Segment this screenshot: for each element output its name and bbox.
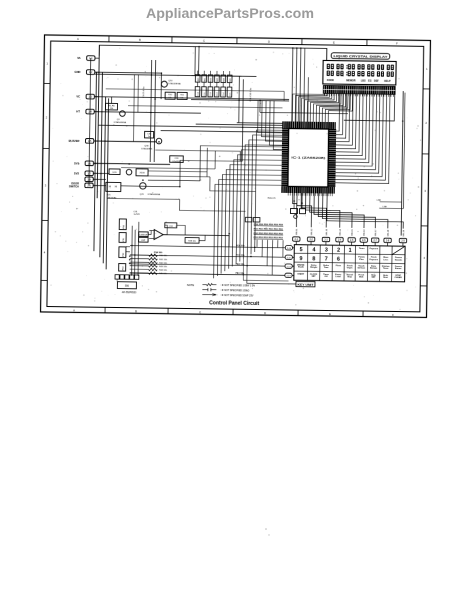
svg-text:X200: X200 — [139, 172, 145, 174]
svg-text:DEF: DEF — [374, 80, 379, 83]
svg-text:: IF NOT SPECIFIED 50WF 25V: : IF NOT SPECIFIED 50WF 25V — [220, 295, 254, 297]
resistor R1-R5 block — [105, 103, 117, 110]
svg-text:C34: C34 — [169, 226, 174, 228]
svg-text:A: A — [73, 308, 75, 312]
svg-text:D: D — [268, 40, 270, 44]
wire bundle top verticals into IC left pins — [257, 48, 308, 151]
svg-text:F: F — [392, 313, 394, 317]
svg-text:F: F — [396, 42, 398, 46]
wire key row lines to oval connectors — [130, 244, 286, 276]
svg-text:3: 3 — [424, 189, 426, 193]
svg-text:C14: C14 — [223, 92, 225, 97]
svg-text:START: START — [297, 272, 305, 275]
wire bundle IC left pins staircase to bottom — [214, 129, 299, 284]
svg-text:PLUS: PLUS — [298, 267, 304, 269]
wire HT line — [94, 97, 289, 115]
svg-text:Less: Less — [383, 259, 389, 261]
svg-text:LM358: LM358 — [139, 234, 148, 236]
svg-text:2: 2 — [337, 248, 340, 254]
wire extra horizontal runs center — [93, 72, 285, 212]
svg-text:Popcorn: Popcorn — [370, 247, 379, 250]
svg-text:A: A — [77, 37, 79, 41]
svg-text:R24: R24 — [223, 77, 225, 82]
stray scan dots — [265, 528, 267, 530]
svg-text:SW-19: SW-19 — [403, 229, 405, 236]
svg-text:9: 9 — [299, 256, 302, 262]
svg-text:C13: C13 — [217, 92, 219, 97]
connector 1-6 SV1 — [74, 161, 93, 166]
svg-text:PA0 10h: PA0 10h — [236, 263, 245, 266]
connector 2-2 key line — [307, 237, 315, 245]
key matrix keyboard grid — [294, 245, 405, 282]
wire bundle IC top to left circuitry — [196, 47, 349, 127]
svg-text:Popcorn: Popcorn — [369, 258, 378, 261]
svg-text:1u: 1u — [148, 136, 150, 138]
wire top horizontal buses — [94, 74, 283, 132]
svg-text:SW-14: SW-14 — [340, 228, 342, 235]
op-amp U30 LM358 — [139, 222, 230, 243]
connector 2-12 key row oval — [285, 264, 294, 269]
transistor Q21 — [140, 183, 161, 196]
svg-text:Timer: Timer — [383, 267, 389, 270]
LCD title box LIQUID CRYSTAL DISPLAY — [331, 53, 390, 59]
capacitor C30 transistor Q30 buzzer cluster — [94, 131, 162, 151]
svg-text:SW-11: SW-11 — [296, 228, 298, 235]
svg-text:R42 10k: R42 10k — [159, 263, 168, 265]
svg-text:Plus: Plus — [359, 259, 364, 261]
resistor ladder RA zigzags — [130, 254, 169, 276]
svg-text:EG: EG — [368, 80, 372, 83]
svg-text:C10: C10 — [198, 91, 200, 96]
title Control Panel Circuit — [209, 300, 259, 307]
svg-text:C: C — [203, 39, 205, 43]
svg-text:SET: SET — [371, 277, 376, 279]
svg-text:DTA143ESA: DTA143ESA — [168, 82, 181, 85]
svg-text:R20: R20 — [198, 77, 200, 82]
svg-text:R21: R21 — [204, 77, 206, 82]
svg-text:Control Panel Circuit: Control Panel Circuit — [209, 300, 259, 307]
svg-text:R25: R25 — [230, 77, 232, 82]
svg-text:LM(340A): LM(340A) — [107, 196, 117, 199]
svg-text:PS2: PS2 — [123, 252, 125, 257]
svg-text:AppliancePartsPros.com: AppliancePartsPros.com — [146, 6, 314, 22]
svg-text:DTA144ESA: DTA144ESA — [114, 121, 127, 124]
resistor array R20 capacitor C10 cluster — [191, 71, 289, 101]
svg-text:LNE: LNE — [377, 200, 382, 202]
svg-text:Stop: Stop — [347, 276, 352, 279]
svg-text:6: 6 — [337, 256, 340, 262]
svg-text:-: - — [155, 232, 156, 235]
svg-text:KEY UNIT: KEY UNIT — [297, 283, 313, 287]
connector 2-7 key line — [371, 238, 379, 246]
svg-text:SV2: SV2 — [74, 171, 80, 175]
svg-text:H: H — [115, 185, 117, 189]
wire bundle lower-left verticals — [126, 222, 139, 276]
capacitor C40 cluster — [245, 217, 260, 222]
svg-text:10k: 10k — [180, 97, 183, 99]
svg-text:R23: R23 — [217, 77, 219, 82]
IC bottom pin stubs — [288, 193, 332, 196]
svg-text:4: 4 — [312, 247, 315, 253]
svg-text:PC0 13h: PC0 13h — [236, 245, 245, 247]
IC U20 transistor Q20 SV1 cluster — [93, 163, 170, 176]
svg-text:1: 1 — [426, 67, 428, 71]
svg-text:SW-17: SW-17 — [375, 229, 377, 236]
svg-text:R40-1/5: R40-1/5 — [268, 197, 277, 199]
svg-text:10k: 10k — [168, 97, 171, 99]
svg-text:LBS: LBS — [361, 80, 366, 83]
LCD ribbon stubs — [324, 93, 393, 96]
svg-text:Q21: Q21 — [140, 194, 145, 196]
svg-text:U20: U20 — [113, 172, 118, 174]
svg-text:Q30: Q30 — [144, 145, 149, 147]
svg-text:3: 3 — [45, 183, 47, 187]
svg-text:Level: Level — [335, 276, 341, 278]
svg-text:E: E — [329, 312, 331, 316]
IC U21 driver — [93, 179, 121, 199]
svg-text:SW-12: SW-12 — [311, 228, 313, 235]
capacitor C1-C5 label — [143, 86, 145, 98]
label KEY UNIT — [296, 281, 315, 286]
LCD pin header strip — [323, 85, 395, 94]
svg-text:C12: C12 — [210, 91, 212, 96]
note legend — [187, 283, 255, 298]
connector 1-8 conn — [85, 177, 93, 182]
label C31 — [133, 211, 140, 216]
svg-text:2: 2 — [425, 121, 427, 125]
svg-text:HT: HT — [76, 110, 80, 114]
svg-text:Off: Off — [324, 276, 327, 278]
resistor R10 R11 — [165, 92, 187, 99]
svg-text:2: 2 — [46, 115, 48, 119]
svg-text:HELP: HELP — [384, 80, 391, 83]
svg-text:LMP: LMP — [141, 240, 146, 242]
resistor network values block — [254, 224, 284, 240]
svg-text:R40 10k: R40 10k — [159, 255, 168, 257]
wire bundle IC bottom pins to key unit connectors — [292, 193, 403, 229]
svg-text:4: 4 — [44, 250, 46, 254]
connector 2-6 key line — [360, 238, 368, 246]
svg-text:IC-1 (ZA66208): IC-1 (ZA66208) — [291, 155, 325, 159]
svg-text:PS3: PS3 — [122, 266, 124, 271]
connector J3 bottom row — [115, 275, 139, 282]
svg-text:SW-15: SW-15 — [352, 228, 354, 235]
wire bundle LCD ribbon to IC top pins — [292, 93, 352, 122]
schematic sheet rotated group — [41, 35, 431, 317]
scan speckle noise — [50, 45, 422, 311]
svg-text:E: E — [333, 41, 335, 45]
wire left connector stubs — [93, 58, 99, 185]
svg-text:Start: Start — [383, 276, 388, 279]
sheet border outer frame — [41, 35, 431, 317]
connector column CN3 boxes — [119, 219, 127, 271]
svg-text:SW-16: SW-16 — [364, 229, 366, 236]
svg-text:PS0: PS0 — [123, 224, 125, 229]
wire VA to LCD top bus — [99, 45, 327, 60]
svg-text:: IF NOT SPECIFIED 1/16W J 5%: : IF NOT SPECIFIED 1/16W J 5% — [220, 285, 255, 287]
wire bundle LCD ribbon to IC right pins nested — [335, 94, 390, 184]
svg-text:1u/50V: 1u/50V — [133, 214, 140, 216]
svg-text:Entree: Entree — [395, 267, 402, 270]
connector 1-7 SV2 — [74, 171, 93, 176]
svg-text:Pizza: Pizza — [336, 265, 342, 267]
svg-text:PS0 500: PS0 500 — [154, 252, 163, 254]
svg-text:D: D — [264, 311, 266, 315]
svg-text:VA: VA — [77, 56, 81, 60]
svg-text:PC1 13h: PC1 13h — [236, 255, 245, 257]
IC U1 IC-1 IZA66208 microcontroller QFP — [281, 121, 336, 193]
svg-text:SW-13: SW-13 — [326, 228, 328, 235]
svg-text:Reheat: Reheat — [370, 267, 377, 270]
svg-text:556: 556 — [125, 285, 130, 288]
svg-text:8: 8 — [312, 256, 315, 262]
connector 1-2 GND — [74, 70, 94, 75]
wire buzzer vertical pair — [148, 147, 207, 177]
svg-text:DTA144ESA: DTA144ESA — [148, 193, 161, 196]
svg-text:Timer: Timer — [359, 247, 365, 250]
connector 2-9 key line — [399, 238, 407, 246]
svg-text:Weight: Weight — [310, 266, 317, 269]
wire door switch lines — [121, 145, 282, 189]
border zone tick marks — [41, 35, 431, 317]
capacitor C11-C15 label — [250, 87, 252, 101]
svg-text:B: B — [135, 309, 137, 313]
svg-text:PA1 10h: PA1 10h — [236, 272, 245, 275]
svg-text:SWITCH: SWITCH — [69, 185, 79, 188]
connector 2-4 key line — [336, 237, 344, 245]
connector 2-1 key line — [293, 237, 301, 245]
svg-text:VC: VC — [76, 95, 80, 99]
svg-text:COOK: COOK — [327, 79, 334, 82]
svg-text:DTA143ES: DTA143ES — [141, 147, 152, 150]
label LNE lines — [377, 200, 404, 209]
capacitor C20 — [170, 156, 184, 163]
svg-text:SET: SET — [312, 276, 317, 278]
svg-text:Q10: Q10 — [168, 80, 173, 82]
svg-text:Q1: Q1 — [117, 119, 121, 121]
svg-text:R22: R22 — [211, 77, 213, 82]
connector 2-8 key line — [384, 238, 392, 246]
connector 2-5 key line — [348, 238, 356, 246]
connector 1-4 HT — [76, 109, 94, 114]
svg-text:CLEAR: CLEAR — [395, 276, 403, 279]
svg-text:R41 10k: R41 10k — [159, 259, 168, 261]
svg-text:C1-C5 0.1u: C1-C5 0.1u — [143, 86, 145, 98]
svg-text:Snacks: Snacks — [395, 259, 403, 261]
svg-text:C: C — [199, 310, 201, 314]
svg-text:C11-C15 0.1u: C11-C15 0.1u — [250, 87, 252, 101]
svg-text:R38 10k: R38 10k — [188, 241, 195, 243]
LCD display module DS1 — [323, 60, 396, 85]
svg-text:R43 10k: R43 10k — [159, 266, 168, 268]
wire LCD right verticals to key unit — [342, 90, 405, 235]
svg-text:B: B — [139, 38, 141, 42]
key unit connector vertical labels — [296, 228, 405, 237]
svg-text:PS1: PS1 — [123, 237, 125, 242]
transistor Q1 — [114, 111, 127, 124]
wire verticals center top — [150, 46, 261, 164]
connector 2-3 key line — [322, 237, 330, 245]
connector 2-10 key row oval — [285, 246, 294, 251]
svg-text:4: 4 — [423, 256, 425, 260]
svg-text:AH-552P6520: AH-552P6520 — [122, 291, 137, 294]
wire left connector vertical bus — [88, 45, 110, 269]
svg-text:5: 5 — [300, 247, 303, 253]
svg-text:1: 1 — [349, 248, 352, 254]
svg-text:MEMOR: MEMOR — [346, 79, 355, 82]
svg-text:0.1u/50V: 0.1u/50V — [172, 161, 181, 163]
connector 1-9 DOOR — [69, 182, 93, 188]
connector 1-3 VC — [76, 94, 94, 99]
svg-text:C11: C11 — [204, 92, 206, 96]
connector 2-11 key row oval — [285, 255, 294, 260]
svg-text:7: 7 — [325, 256, 328, 262]
transistor Q10 — [161, 80, 181, 87]
svg-text:Defrost: Defrost — [358, 267, 366, 270]
svg-text:Time: Time — [324, 267, 330, 269]
svg-text:U21: U21 — [107, 194, 112, 196]
svg-text:R45 10k: R45 10k — [159, 273, 168, 275]
sheet border inner frame — [47, 41, 424, 312]
label R40-1/5 — [268, 197, 277, 199]
crystal oscillator X1 — [290, 193, 305, 219]
connector 1-1 VA — [77, 56, 95, 61]
svg-text:LIQUID CRYSTAL DISPLAY: LIQUID CRYSTAL DISPLAY — [333, 54, 388, 59]
svg-text:BUZZER: BUZZER — [69, 139, 80, 143]
svg-text:GND: GND — [74, 70, 80, 74]
svg-text:1: 1 — [46, 61, 48, 65]
op-amp feedback wires — [148, 222, 229, 247]
label PS0 500 — [154, 252, 163, 254]
IC A1 AH-552P6520 — [117, 282, 137, 294]
svg-text:Melt: Melt — [359, 276, 364, 279]
connector 2-13 key row oval — [285, 273, 294, 278]
svg-text:SW-18: SW-18 — [388, 229, 390, 236]
wire verticals resistor block to lines — [257, 240, 284, 276]
svg-text:: IF NOT SPECIFIED 100kΩ: : IF NOT SPECIFIED 100kΩ — [220, 290, 249, 292]
svg-text:Veget.: Veget. — [347, 266, 354, 269]
svg-text:NOTE: NOTE — [187, 283, 195, 287]
connector 1-5 BUZZER — [69, 138, 94, 143]
svg-text:R44 10k: R44 10k — [159, 270, 168, 272]
svg-text:C15: C15 — [230, 92, 232, 97]
